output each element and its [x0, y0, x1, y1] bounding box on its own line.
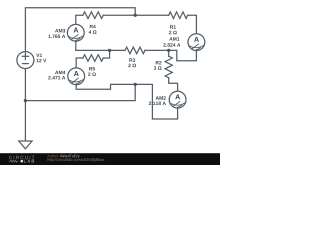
- label 3 ohm R2: [154, 66, 162, 70]
- wire: R3 right to node C: [145, 49, 169, 51]
- label 12 V: [37, 59, 47, 62]
- ammeter AM1: [188, 34, 205, 51]
- label 2.471 A: [48, 76, 65, 79]
- label R1: [170, 25, 176, 28]
- label 2 ohm R1: [169, 31, 177, 34]
- wire: node C to AM1 bottom: [169, 50, 197, 60]
- resistor R1: [169, 12, 188, 19]
- wire: AM4 bottom to node D: [76, 84, 135, 89]
- wire: R5 right up to node B: [103, 50, 109, 58]
- wire: R4 right through node A to R1 left: [103, 14, 168, 16]
- label R2: [156, 61, 162, 64]
- wire: AM2 bottom loop to node D: [135, 84, 177, 119]
- label 2 ohm R5: [88, 72, 96, 75]
- label AM2: [156, 96, 166, 99]
- voltage source V1: [17, 52, 34, 69]
- attribution url: [48, 158, 105, 162]
- node C junction: [167, 49, 170, 52]
- label 2 ohm R3: [128, 64, 136, 67]
- CircuitLab logo zigzag: [9, 160, 19, 162]
- wire: AM3 bottom to node B: [76, 41, 110, 50]
- label 2.118 A: [149, 102, 166, 106]
- wire: R1 right to AM1 top: [188, 15, 197, 34]
- label AM3: [55, 29, 65, 33]
- label R3: [129, 58, 135, 62]
- CircuitLab logo CIRCUIT: [9, 156, 35, 160]
- node B junction: [108, 49, 111, 52]
- wire: R2 top lead: [168, 50, 170, 56]
- ammeter AM2: [169, 91, 186, 108]
- resistor R2: [165, 56, 172, 78]
- label 2.824 A: [163, 43, 180, 47]
- wire: node D down, bottom rail to ground junction: [25, 84, 135, 100]
- wire: R2 bottom to AM2 top: [169, 78, 178, 91]
- node A junction: [134, 14, 137, 17]
- wire: node B to R3 left: [110, 49, 125, 51]
- CircuitLab logo square: [21, 160, 24, 163]
- label AM1: [169, 37, 179, 40]
- wire: AM4 top lead to R5: [76, 58, 83, 68]
- ground: [19, 141, 32, 149]
- resistor R5: [83, 55, 103, 62]
- label R4: [90, 25, 96, 28]
- label 4 ohm: [89, 30, 97, 33]
- node D junction: [134, 83, 137, 86]
- ammeter AM3: [67, 24, 84, 41]
- CircuitLab logo LAB: [24, 160, 34, 163]
- resistor R3: [125, 47, 145, 54]
- wire: V1 minus lead down to ground: [24, 69, 26, 141]
- label R5: [89, 67, 95, 70]
- ammeter AM4: [68, 68, 85, 85]
- ground junction: [24, 99, 27, 102]
- footer bar: [0, 153, 220, 165]
- label AM4: [55, 71, 65, 74]
- resistor R4: [83, 12, 103, 19]
- wire: V1 plus lead up, top rail, drop to node A: [25, 8, 135, 52]
- attribution author: [47, 155, 58, 158]
- wire: AM3 top lead to R4: [76, 15, 83, 24]
- label 1.765 A: [48, 35, 65, 39]
- label V1: [36, 54, 42, 57]
